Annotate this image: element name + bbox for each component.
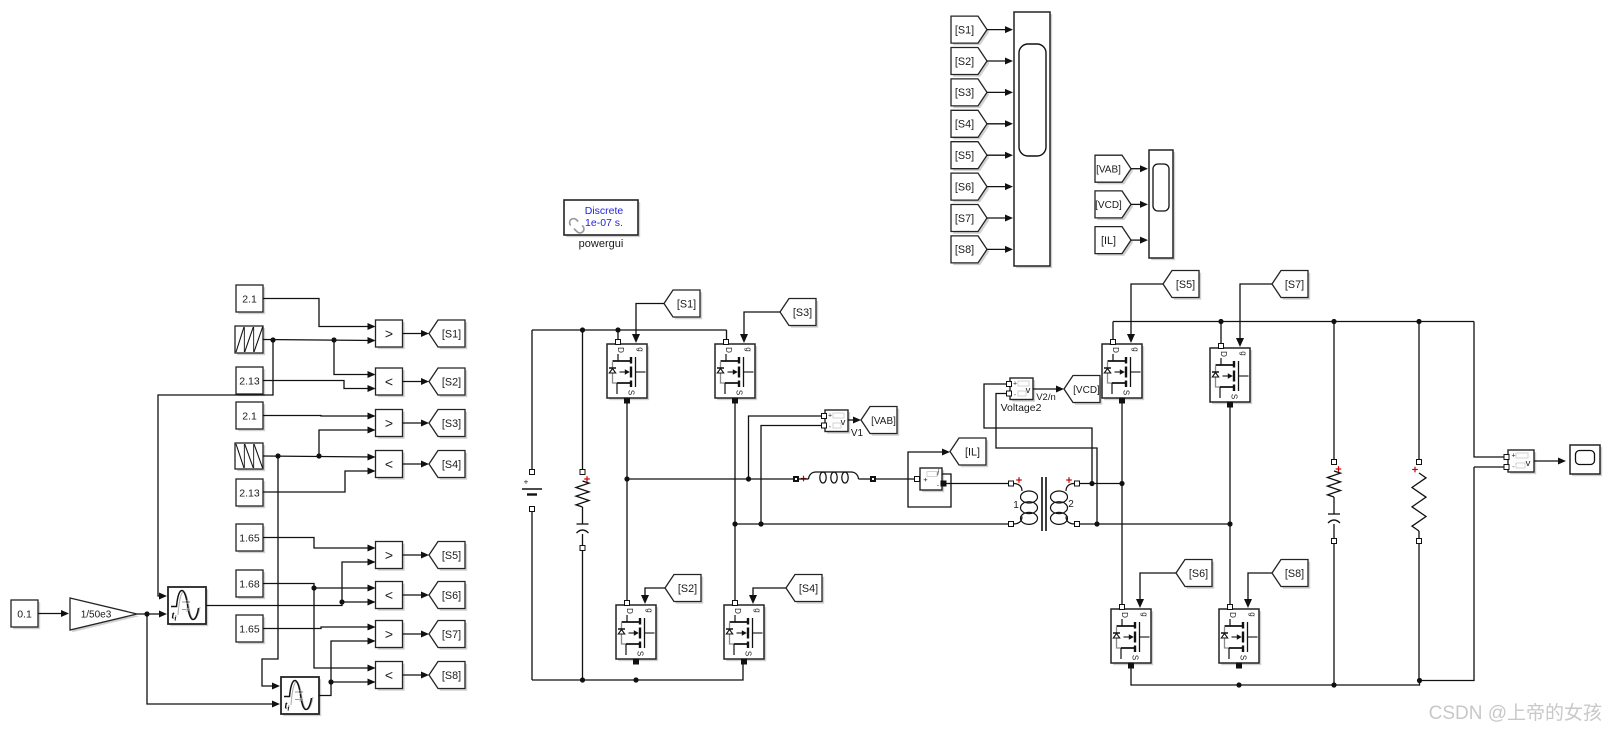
svg-text:+: + — [1511, 453, 1515, 460]
goto tag [S6] gate — [1176, 560, 1214, 589]
wire secondary bottom right — [1080, 521, 1233, 526]
wire V1 to [VAB] — [848, 417, 861, 424]
wire V1- to node B — [761, 426, 822, 523]
wire relop to [S5] — [403, 552, 430, 559]
sawtooth carrier 2 — [235, 443, 265, 471]
scope Scope1 (gate signals) — [1014, 12, 1052, 268]
wire measurement minus to transformer — [946, 483, 1009, 485]
MOSFET S5 — [1102, 340, 1144, 404]
voltage measurement Vo — [1504, 450, 1536, 474]
MOSFET S3 — [715, 340, 757, 404]
powergui block — [564, 200, 640, 250]
label V2/n — [1036, 392, 1056, 403]
wire t_i2 output to >S7 b and <S8 b — [319, 638, 376, 696]
svg-text:[S1]: [S1] — [442, 328, 461, 340]
svg-text:[S8]: [S8] — [1285, 568, 1304, 580]
from tag [S4] (scope input) — [951, 110, 989, 139]
from tag [S3] (scope input) — [951, 79, 989, 108]
constant 2.1 (upper) — [236, 285, 265, 314]
wire relop to [S3] — [403, 420, 430, 427]
svg-text:powergui: powergui — [579, 238, 624, 250]
wire [S2] to scope — [987, 58, 1013, 65]
wire [S8] to S8 gate — [1244, 573, 1272, 608]
svg-text:<: < — [385, 667, 393, 683]
wire rail to S1 drain — [617, 330, 619, 339]
svg-text:[S6]: [S6] — [1189, 568, 1208, 580]
svg-text:>: > — [385, 415, 393, 431]
goto tag [S7] — [429, 621, 467, 650]
wire 2.1 lower to >S3 a — [263, 413, 376, 420]
svg-text:+: + — [1013, 381, 1017, 388]
MOSFET S2 — [616, 601, 658, 665]
goto tag [S6] — [429, 582, 467, 611]
wire [S1] to scope — [987, 26, 1013, 33]
wire [S7] to S7 gate — [1236, 284, 1272, 347]
secondary right leg (node D) — [1229, 407, 1231, 605]
wire [S2] to S2 gate — [641, 588, 665, 604]
wire [S7] to scope — [987, 215, 1013, 222]
svg-text:1/50e3: 1/50e3 — [81, 610, 112, 621]
svg-text:V2/n: V2/n — [1036, 392, 1056, 403]
wire V1+ to node A — [749, 416, 822, 477]
wire inductor to current measurement — [876, 478, 915, 480]
goto tag [S1] gate — [664, 290, 702, 319]
svg-text:[S7]: [S7] — [442, 629, 461, 641]
svg-text:>: > — [385, 626, 393, 642]
right leg wire (node B) — [732, 403, 737, 601]
relational operator < for S6 — [376, 582, 405, 611]
svg-text:[S6]: [S6] — [442, 590, 461, 602]
wire secondary top to bridge left leg — [1080, 481, 1125, 486]
wire sawtooth1 branch to <S2 a — [334, 340, 376, 378]
goto tag [S8] gate — [1272, 560, 1310, 589]
secondary top rail — [1113, 319, 1474, 343]
load resistor R — [1412, 323, 1426, 681]
goto tag [VCD] — [1064, 376, 1102, 405]
relational operator < for S8 — [376, 662, 405, 691]
svg-text:[VAB]: [VAB] — [871, 416, 896, 427]
from tag [S6] (scope input) — [951, 173, 989, 202]
wire relop to [S2] — [403, 378, 430, 385]
wire 1.65 to >S5 a — [263, 538, 376, 552]
svg-text:[S2]: [S2] — [442, 376, 461, 388]
from tag [IL] (scope input) — [1095, 227, 1133, 256]
MOSFET S7 — [1210, 344, 1252, 408]
goto tag [S5] gate — [1163, 271, 1201, 300]
svg-text:-: - — [1014, 390, 1017, 399]
voltage measurement Voltage2 — [1001, 378, 1042, 414]
wire 1.68 to <S6 a and <S8 a — [263, 584, 376, 672]
goto tag [S2] — [429, 368, 467, 397]
node A wire to inductor — [627, 476, 793, 481]
MOSFET S1 — [607, 340, 649, 404]
relational operator > for S5 — [376, 542, 405, 571]
node B wire to transformer — [735, 521, 1100, 526]
constant 2.13 (lower) — [236, 479, 265, 508]
svg-text:1.68: 1.68 — [239, 578, 260, 590]
goto tag [S4] gate — [786, 575, 824, 604]
snubber R2C2 branch (output) — [1328, 323, 1342, 685]
wire t_i1 output to >S5 b and <S6 b — [206, 559, 376, 606]
wire relop to [S8] — [403, 672, 430, 679]
wire sawtooth2 to <S4 a — [263, 453, 376, 460]
svg-text:[S2]: [S2] — [678, 583, 697, 595]
svg-text:[S5]: [S5] — [1176, 279, 1195, 291]
svg-text:[S4]: [S4] — [955, 119, 974, 131]
wire relop to [S1] — [403, 330, 430, 337]
current measurement I_L — [915, 468, 947, 493]
from tag [VCD] (scope input) — [1095, 191, 1133, 220]
constant 2.1 (lower) — [236, 402, 265, 431]
constant 0.1 — [11, 600, 40, 629]
wire Voltage2- to secondary bottom — [996, 394, 1097, 523]
left leg wire (node A) — [624, 403, 629, 601]
svg-text:-: - — [937, 481, 940, 490]
svg-text:[S2]: [S2] — [955, 56, 974, 68]
svg-text:[VAB]: [VAB] — [1096, 165, 1121, 176]
svg-text:[S1]: [S1] — [677, 298, 696, 310]
transformer T1 — [1009, 477, 1080, 531]
svg-text:[S7]: [S7] — [955, 213, 974, 225]
scope Scope2 (measurements) — [1149, 150, 1175, 260]
goto tag [S4] — [429, 451, 467, 480]
scope Scope (output voltage) — [1570, 445, 1602, 476]
relational operator < for S2 — [376, 368, 405, 397]
wire [S4] to S4 gate — [749, 588, 786, 604]
constant 1.65 (S5) — [236, 524, 265, 553]
goto tag [S5] — [429, 542, 467, 571]
svg-text:<: < — [385, 456, 393, 472]
wire rail corner to S3 drain — [726, 330, 728, 339]
svg-text:2.1: 2.1 — [242, 410, 257, 422]
wire 1.65 to >S7 a — [263, 624, 376, 631]
top DC rail — [532, 327, 727, 332]
wire Voltage2 to [VCD] — [1033, 386, 1064, 393]
relational operator > for S7 — [376, 621, 405, 650]
wire relop to [S4] — [403, 461, 430, 468]
relational operator < for S4 — [376, 451, 405, 480]
from tag [VAB] (scope input) — [1095, 155, 1133, 184]
gain 1/50e3 — [70, 598, 139, 632]
svg-text:[S1]: [S1] — [955, 24, 974, 36]
wire [IL] to scope — [1131, 237, 1148, 244]
svg-text:1.65: 1.65 — [239, 623, 260, 635]
sawtooth carrier 1 — [235, 326, 265, 355]
goto tag [S3] — [429, 410, 467, 439]
svg-text:[VCD]: [VCD] — [1095, 200, 1122, 211]
svg-text:CSDN @上帝的女孩: CSDN @上帝的女孩 — [1429, 702, 1602, 724]
svg-text:[S3]: [S3] — [442, 418, 461, 430]
wire relop to [S6] — [403, 592, 430, 599]
secondary bottom rail — [1131, 467, 1474, 688]
svg-text:-: - — [829, 422, 832, 431]
svg-text:Discrete: Discrete — [585, 205, 624, 217]
svg-text:V1: V1 — [851, 428, 864, 439]
svg-text:[S4]: [S4] — [442, 459, 461, 471]
svg-text:<: < — [385, 374, 393, 390]
svg-text:[S8]: [S8] — [955, 244, 974, 256]
constant 1.65 (S7) — [236, 615, 265, 644]
svg-text:[S8]: [S8] — [442, 670, 461, 682]
svg-text:+: + — [524, 477, 529, 487]
wire [S3] to scope — [987, 89, 1013, 96]
relational operator > for S1 — [376, 320, 405, 349]
svg-text:0.1: 0.1 — [17, 608, 32, 620]
from tag [S2] (scope input) — [951, 48, 989, 77]
svg-text:-: - — [1512, 462, 1515, 471]
wire [S6] to scope — [987, 183, 1013, 190]
bottom DC rail — [532, 662, 743, 683]
svg-text:[S6]: [S6] — [955, 181, 974, 193]
wire gain to t_i1 lower input — [137, 611, 167, 618]
wire sawtooth2 feedback to t_i2 upper input — [262, 456, 280, 690]
svg-text:1: 1 — [1013, 500, 1019, 511]
wire output+ to Vo — [1474, 322, 1504, 458]
svg-text:[VCD]: [VCD] — [1073, 385, 1100, 396]
goto tag [S2] gate — [665, 575, 703, 604]
wire sawtooth1 feedback to t_i1 upper input — [158, 340, 273, 600]
goto tag [S7] gate — [1272, 271, 1310, 300]
wire [S4] to scope — [987, 120, 1013, 127]
svg-text:<: < — [385, 587, 393, 603]
goto tag [S8] — [429, 662, 467, 691]
svg-text:[S3]: [S3] — [793, 307, 812, 319]
sine generator t_i 1 — [168, 587, 208, 626]
svg-text:v: v — [1526, 458, 1531, 469]
DC voltage source E — [522, 330, 542, 680]
from tag [S5] (scope input) — [951, 142, 989, 171]
from tag [S8] (scope input) — [951, 236, 989, 265]
wire sawtooth2 branch to >S3 b — [319, 427, 376, 457]
wire [S5] to scope — [987, 152, 1013, 159]
sine generator t_i 2 — [281, 677, 321, 716]
wire gain branch down to t_i2 lower input — [147, 614, 280, 708]
secondary left leg (node C) — [1121, 403, 1123, 605]
wire [S5] to S5 gate — [1127, 284, 1163, 343]
wire 0.1 to gain — [38, 610, 69, 617]
MOSFET S8 — [1219, 605, 1261, 669]
svg-text:+: + — [828, 413, 832, 420]
voltage measurement V1 — [822, 410, 864, 439]
svg-text:2.13: 2.13 — [239, 487, 260, 499]
svg-text:2.1: 2.1 — [242, 293, 257, 305]
wire [S1] to S1 gate — [632, 304, 664, 344]
goto tag [S1] — [429, 320, 467, 349]
relational operator > for S3 — [376, 410, 405, 439]
goto tag [IL] — [950, 438, 988, 467]
wire [S8] to scope — [987, 246, 1013, 253]
series inductor L — [794, 472, 876, 483]
wire [VCD] to scope — [1131, 201, 1148, 208]
from tag [S7] (scope input) — [951, 205, 989, 234]
constant 2.13 (upper) — [236, 367, 265, 396]
svg-text:[S5]: [S5] — [955, 150, 974, 162]
svg-text:1e-07 s.: 1e-07 s. — [585, 217, 623, 229]
svg-text:[IL]: [IL] — [965, 446, 980, 458]
watermark — [1429, 702, 1602, 724]
goto tag [VAB] — [861, 407, 899, 436]
svg-text:1.65: 1.65 — [239, 532, 260, 544]
svg-text:Voltage2: Voltage2 — [1001, 402, 1042, 414]
wire [VAB] to scope — [1131, 165, 1148, 172]
wire i output loop to [IL] — [908, 449, 951, 508]
svg-text:2: 2 — [1068, 499, 1074, 510]
svg-text:[IL]: [IL] — [1101, 235, 1116, 247]
wire relop to [S7] — [403, 631, 430, 638]
wire [S6] to S6 gate — [1136, 573, 1176, 608]
constant 1.68 — [236, 570, 265, 599]
wire Voltage2+ to secondary top — [984, 384, 1092, 481]
svg-text:>: > — [385, 547, 393, 563]
wire 2.13 lower to <S4 b — [263, 468, 376, 493]
from tag [S1] (scope input) — [951, 16, 989, 45]
snubber R1C1 branch (primary) — [576, 332, 590, 680]
wire Vo- alread drawn via bottom rail — [1474, 466, 1504, 468]
svg-text:[S4]: [S4] — [799, 583, 818, 595]
MOSFET S4 — [724, 601, 766, 665]
svg-text:[S3]: [S3] — [955, 87, 974, 99]
wire [S3] to S3 gate — [740, 312, 780, 343]
wire 2.13 upper to <S2 b — [263, 381, 376, 393]
svg-text:[S7]: [S7] — [1285, 279, 1304, 291]
svg-text:>: > — [385, 326, 393, 342]
wire sawtooth1 to >S1 b — [263, 337, 376, 344]
svg-text:[S5]: [S5] — [442, 550, 461, 562]
MOSFET S6 — [1111, 605, 1153, 669]
goto tag [S3] gate — [780, 299, 818, 328]
wire Vo to scope — [1534, 458, 1566, 465]
wire 2.1 upper to >S1 a — [263, 299, 376, 331]
svg-text:2.13: 2.13 — [239, 375, 260, 387]
